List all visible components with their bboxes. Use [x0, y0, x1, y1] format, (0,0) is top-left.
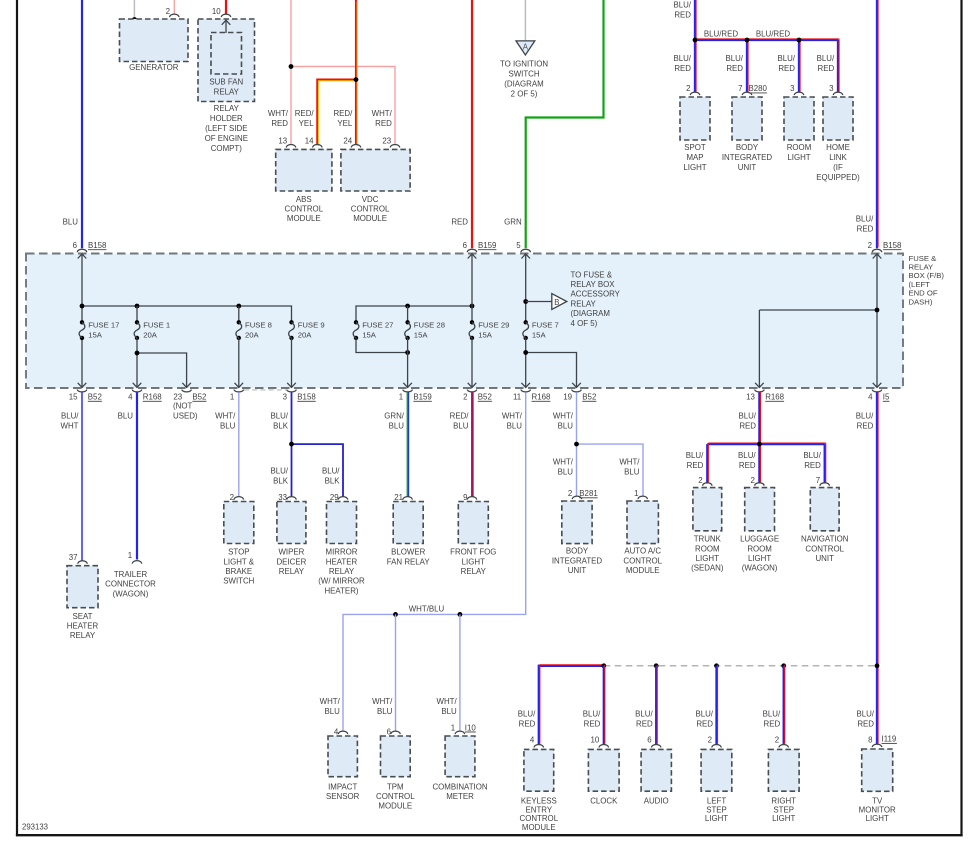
svg-text:RED: RED	[857, 720, 874, 729]
svg-text:B159: B159	[478, 241, 497, 250]
svg-text:MIRROR: MIRROR	[326, 548, 358, 557]
fuse FUSE 8 20A	[238, 306, 240, 322]
page border left	[16, 0, 18, 836]
svg-text:BLU/: BLU/	[738, 412, 756, 421]
svg-text:BLU/: BLU/	[777, 54, 795, 63]
svg-text:RED: RED	[857, 422, 874, 431]
svg-text:LIGHT: LIGHT	[866, 814, 889, 823]
fuse box entry pin 6 B159	[467, 249, 476, 252]
svg-text:7: 7	[738, 84, 742, 93]
wire BLU/RED keyless entry riser	[539, 666, 604, 745]
wire BLU/RED from exit 13 R168 to trunk/luggage/navigation	[758, 392, 760, 483]
svg-text:TO FUSE &: TO FUSE &	[571, 270, 613, 279]
svg-text:I10: I10	[465, 723, 477, 732]
svg-text:BLU/: BLU/	[673, 1, 691, 10]
svg-text:RED: RED	[674, 64, 691, 73]
svg-text:RED: RED	[739, 461, 756, 470]
svg-text:FAN RELAY: FAN RELAY	[387, 557, 431, 566]
component HOME LINK	[823, 97, 853, 140]
component CLOCK	[588, 749, 619, 791]
svg-text:NAVIGATION: NAVIGATION	[801, 535, 849, 544]
svg-text:RED: RED	[451, 217, 468, 226]
svg-text:GENERATOR: GENERATOR	[129, 63, 179, 72]
svg-text:RELAY: RELAY	[214, 88, 240, 97]
svg-text:(DIAGRAM: (DIAGRAM	[571, 309, 610, 318]
svg-text:RED: RED	[818, 64, 835, 73]
svg-text:293133: 293133	[22, 823, 48, 832]
wire BLU to trailer connector	[136, 392, 138, 559]
svg-text:(WAGON): (WAGON)	[113, 589, 149, 598]
fuse box exit pin 19 B52	[572, 383, 581, 388]
wire BLU/RED from exit 4 I5 down to tv monitor light	[876, 392, 878, 744]
svg-text:TV: TV	[872, 796, 883, 805]
svg-text:RED: RED	[687, 461, 704, 470]
component BODY INTEGRATED UNIT (roof)	[732, 97, 762, 140]
svg-text:MONITOR: MONITOR	[859, 805, 896, 814]
component STOP LIGHT & BRAKE SWITCH	[224, 502, 254, 544]
junction dot WHT/RED	[289, 64, 294, 69]
svg-text:15A: 15A	[478, 331, 493, 340]
svg-text:MAP: MAP	[686, 153, 703, 162]
svg-text:BLU/: BLU/	[673, 54, 691, 63]
fuse FUSE 29 15A	[470, 320, 474, 324]
off-page connector A to ignition switch	[516, 41, 535, 55]
svg-text:4 OF 5): 4 OF 5)	[571, 319, 598, 328]
svg-text:A: A	[523, 43, 529, 52]
svg-text:B158: B158	[883, 241, 902, 250]
svg-text:15A: 15A	[362, 331, 377, 340]
svg-text:CONTROL: CONTROL	[805, 544, 844, 553]
svg-text:INTEGRATED: INTEGRATED	[722, 153, 773, 162]
wire WHT/BLU drop to combination meter	[459, 614, 461, 731]
internal wire from entry 6 B158 down through fuse 17	[81, 255, 83, 323]
component NAVIGATION CONTROL UNIT	[810, 488, 839, 531]
svg-text:23: 23	[382, 136, 391, 145]
wire RED sub fan relay pin 10	[225, 0, 227, 15]
junction dot RED/YEL	[354, 77, 359, 82]
svg-text:LUGGAGE: LUGGAGE	[740, 535, 779, 544]
svg-text:CONTROL: CONTROL	[351, 205, 390, 214]
svg-text:BLU: BLU	[441, 707, 457, 716]
fuse FUSE 9 20A	[289, 320, 293, 324]
svg-text:BLU/: BLU/	[322, 467, 340, 476]
component SPOT MAP LIGHT	[680, 97, 710, 140]
svg-text:RELAY: RELAY	[329, 567, 355, 576]
svg-text:STEP: STEP	[706, 805, 727, 814]
svg-text:SENSOR: SENSOR	[326, 792, 360, 801]
svg-text:WHT/: WHT/	[619, 458, 640, 467]
svg-text:BLU/: BLU/	[270, 412, 288, 421]
svg-text:3: 3	[790, 84, 795, 93]
svg-text:LEFT: LEFT	[707, 796, 726, 805]
svg-text:LIGHT: LIGHT	[748, 554, 771, 563]
svg-text:BLU/: BLU/	[518, 710, 536, 719]
svg-text:ENTRY: ENTRY	[525, 805, 552, 814]
svg-text:BLU/: BLU/	[817, 54, 835, 63]
svg-text:BODY: BODY	[566, 547, 589, 556]
svg-text:I5: I5	[883, 393, 890, 402]
off-page connector B to accessory relay	[552, 294, 567, 310]
svg-text:WHT/BLU: WHT/BLU	[409, 605, 445, 614]
wire BLU/BLK to wiper deicer relay and mirror heater relay	[291, 392, 293, 497]
component SUB FAN RELAY	[211, 33, 242, 75]
svg-text:8: 8	[868, 736, 873, 745]
wire BLU/RED drop to body integrated unit	[746, 40, 748, 93]
svg-text:BLK: BLK	[273, 477, 289, 486]
svg-text:15A: 15A	[88, 331, 103, 340]
svg-text:37: 37	[69, 553, 78, 562]
junction dots on option bus	[601, 663, 606, 668]
svg-text:4: 4	[334, 728, 339, 737]
svg-text:UNIT: UNIT	[738, 163, 757, 172]
fuse box exit pin 15 B52	[78, 383, 87, 388]
component GENERATOR	[120, 19, 189, 62]
svg-text:BLU/: BLU/	[763, 710, 781, 719]
fuse box exit pin 2 B52	[468, 383, 477, 388]
svg-text:(SEDAN): (SEDAN)	[691, 564, 724, 573]
svg-text:WHT/: WHT/	[553, 458, 574, 467]
svg-text:B158: B158	[297, 393, 316, 402]
svg-text:2: 2	[708, 736, 712, 745]
svg-text:RELAY: RELAY	[70, 631, 96, 640]
svg-text:BLK: BLK	[325, 477, 341, 486]
svg-text:FUSE 8: FUSE 8	[245, 321, 272, 330]
svg-text:RED: RED	[764, 720, 781, 729]
svg-text:11: 11	[513, 393, 521, 402]
svg-text:BLU: BLU	[507, 422, 523, 431]
svg-text:GRN/: GRN/	[384, 412, 405, 421]
svg-text:I119: I119	[882, 735, 897, 744]
svg-text:2 OF 5): 2 OF 5)	[511, 89, 538, 98]
component RELAY HOLDER	[198, 19, 255, 102]
svg-text:7: 7	[816, 476, 820, 485]
component TPM CONTROL MODULE	[381, 736, 411, 777]
svg-text:LINK: LINK	[829, 153, 847, 162]
svg-text:3: 3	[829, 84, 834, 93]
svg-text:(DIAGRAM: (DIAGRAM	[504, 79, 543, 88]
svg-text:6: 6	[463, 241, 468, 250]
wire RED from top to fuse box entry 6 B159	[471, 0, 473, 248]
svg-text:WIPER: WIPER	[278, 548, 304, 557]
svg-text:MODULE: MODULE	[353, 214, 387, 223]
svg-text:2: 2	[686, 84, 690, 93]
dashed connector bracket between exits 1 and 3	[244, 389, 286, 391]
svg-text:BLU/: BLU/	[856, 412, 874, 421]
svg-text:UNIT: UNIT	[568, 566, 587, 575]
junction dots on right bus	[405, 304, 410, 309]
wire GRN/BLU to blower fan relay	[407, 392, 409, 497]
wire WHT/BLU to stop light and brake switch	[238, 392, 240, 497]
svg-text:RED/: RED/	[450, 412, 470, 421]
svg-text:(IF: (IF	[833, 163, 843, 172]
wire RED/BLU to front fog light relay	[471, 392, 473, 497]
svg-text:BLU: BLU	[558, 422, 574, 431]
fuse and relay box F/B	[26, 254, 903, 389]
svg-text:1: 1	[399, 393, 403, 402]
component BODY INTEGRATED UNIT	[562, 501, 592, 544]
wire BLU/RED drop to clock	[603, 666, 605, 745]
svg-text:RED: RED	[271, 119, 288, 128]
svg-text:RELAY BOX: RELAY BOX	[571, 280, 616, 289]
svg-text:SUB FAN: SUB FAN	[209, 78, 243, 87]
svg-text:CONTROL: CONTROL	[285, 205, 324, 214]
svg-text:RIGHT: RIGHT	[771, 796, 796, 805]
wire BLU/RED drop to right step light	[783, 666, 785, 745]
wire BLU/RED drop to room light	[798, 40, 800, 93]
svg-text:ROOM: ROOM	[747, 544, 772, 553]
svg-text:AUTO A/C: AUTO A/C	[624, 547, 661, 556]
component TRUNK ROOM LIGHT (SEDAN)	[693, 488, 722, 531]
svg-text:BLU/: BLU/	[61, 412, 79, 421]
svg-text:RED: RED	[636, 720, 653, 729]
svg-text:BLU/: BLU/	[686, 451, 704, 460]
internal wire fuse 7 to exits 11 R168 and 19 B52	[525, 338, 527, 387]
svg-text:4: 4	[868, 393, 873, 402]
svg-text:BLU/: BLU/	[738, 451, 756, 460]
svg-text:BLU/RED: BLU/RED	[704, 30, 739, 39]
svg-text:COMPT): COMPT)	[211, 144, 242, 153]
svg-text:FUSE &: FUSE &	[909, 254, 937, 263]
svg-text:(NOT: (NOT	[173, 402, 192, 411]
svg-text:COMBINATION: COMBINATION	[432, 782, 487, 791]
fuse box exit pin 1	[235, 383, 244, 388]
svg-text:B52: B52	[88, 393, 102, 402]
svg-text:FUSE 1: FUSE 1	[143, 321, 170, 330]
svg-text:BOX (F/B): BOX (F/B)	[909, 271, 945, 280]
svg-text:(W/ MIRROR: (W/ MIRROR	[318, 577, 365, 586]
wire BLU/RED bus to room/home drops	[695, 39, 838, 41]
component KEYLESS ENTRY CONTROL MODULE	[524, 749, 554, 791]
svg-text:BLU/: BLU/	[725, 54, 743, 63]
fuse FUSE 27 15A	[354, 320, 358, 324]
wire WHT/RED from top to ABS pin 13 and VDC pin 23	[290, 0, 292, 145]
svg-text:WHT/: WHT/	[502, 412, 523, 421]
svg-text:R168: R168	[765, 393, 784, 402]
svg-text:RED: RED	[739, 422, 756, 431]
junction dot BLU/BLK	[289, 442, 294, 447]
internal wire from entry 2 B158 down to exits 4 I5 and 13 R168	[876, 255, 878, 388]
svg-text:2: 2	[775, 736, 779, 745]
svg-text:USED): USED)	[173, 411, 198, 420]
fuse box exit pin 3 B158	[287, 383, 296, 388]
svg-text:BLU: BLU	[63, 217, 79, 226]
svg-text:10: 10	[212, 7, 221, 16]
component WIPER DEICER RELAY	[277, 502, 306, 544]
svg-text:RED: RED	[375, 119, 392, 128]
svg-text:WHT/: WHT/	[437, 697, 458, 706]
wire WHT/BLU drop to tpm control module	[395, 614, 397, 731]
svg-text:WHT/: WHT/	[372, 109, 393, 118]
component VDC CONTROL MODULE	[341, 149, 410, 191]
svg-text:2: 2	[166, 7, 170, 16]
svg-text:BRAKE: BRAKE	[225, 567, 252, 576]
fuse FUSE 1 20A	[136, 306, 138, 322]
svg-text:RELAY: RELAY	[909, 263, 934, 272]
svg-text:FUSE 27: FUSE 27	[362, 321, 393, 330]
svg-text:RED: RED	[726, 64, 743, 73]
svg-text:FUSE 9: FUSE 9	[298, 321, 325, 330]
junction dot WHT/BLU branch	[574, 442, 579, 447]
wire WHT/BLU from exit 19 B52 to body integrated unit and auto a/c	[576, 392, 578, 496]
svg-text:LIGHT: LIGHT	[787, 153, 810, 162]
svg-text:1: 1	[451, 723, 455, 732]
svg-text:LIGHT: LIGHT	[683, 163, 706, 172]
svg-text:B158: B158	[88, 241, 107, 250]
component COMBINATION METER	[445, 736, 475, 777]
fuse FUSE 7 15A	[524, 320, 528, 324]
svg-text:WHT/: WHT/	[372, 697, 393, 706]
svg-text:MODULE: MODULE	[626, 566, 660, 575]
wire BLU/WHT to seat heater relay	[81, 392, 83, 561]
svg-text:RED: RED	[584, 720, 601, 729]
svg-text:13: 13	[746, 393, 755, 402]
component RIGHT STEP LIGHT	[768, 749, 799, 791]
internal bus right	[356, 306, 472, 322]
wire from pin 10 into sub fan relay with up arrow	[225, 20, 227, 33]
svg-text:RED/: RED/	[295, 109, 315, 118]
fuse box exit pin 1 B159	[403, 383, 412, 388]
svg-text:BLU: BLU	[558, 468, 574, 477]
wire GRY to ignition switch symbol	[524, 0, 526, 41]
page border bottom	[16, 834, 963, 836]
svg-text:B52: B52	[582, 393, 596, 402]
svg-text:KEYLESS: KEYLESS	[521, 796, 557, 805]
svg-text:20A: 20A	[245, 331, 260, 340]
svg-text:CONTROL: CONTROL	[520, 814, 559, 823]
internal wire from entry 6 B159 down through fuse 29	[471, 255, 473, 323]
svg-text:BLU/RED: BLU/RED	[756, 30, 791, 39]
svg-text:SWITCH: SWITCH	[508, 69, 539, 78]
svg-text:BLU: BLU	[624, 468, 640, 477]
svg-text:HEATER: HEATER	[326, 557, 358, 566]
svg-text:TPM: TPM	[387, 782, 404, 791]
svg-text:WHT/: WHT/	[268, 109, 289, 118]
svg-text:15A: 15A	[532, 331, 547, 340]
svg-text:STEP: STEP	[773, 805, 794, 814]
wire BLU/RED from top to spot map light bus	[694, 0, 696, 93]
svg-text:IMPACT: IMPACT	[328, 782, 357, 791]
svg-text:STOP: STOP	[228, 548, 249, 557]
svg-text:(LEFT SIDE: (LEFT SIDE	[205, 124, 247, 133]
svg-text:LIGHT: LIGHT	[705, 814, 728, 823]
svg-text:BLU/: BLU/	[856, 710, 874, 719]
svg-text:FUSE 17: FUSE 17	[88, 321, 119, 330]
svg-text:2: 2	[568, 489, 572, 498]
component AUTO A/C CONTROL MODULE	[627, 501, 658, 544]
svg-text:4: 4	[530, 736, 535, 745]
svg-text:TRAILER: TRAILER	[114, 570, 148, 579]
svg-text:CLOCK: CLOCK	[590, 796, 618, 805]
svg-text:BLOWER: BLOWER	[391, 548, 425, 557]
svg-text:HEATER): HEATER)	[324, 586, 358, 595]
svg-text:YEL: YEL	[337, 119, 353, 128]
component MIRROR HEATER RELAY	[327, 502, 357, 544]
svg-text:LIGHT: LIGHT	[772, 814, 795, 823]
component LEFT STEP LIGHT	[701, 749, 732, 791]
wire BLU from top to fuse box entry 6 B158	[81, 0, 83, 248]
svg-text:2: 2	[868, 241, 872, 250]
svg-text:WHT/: WHT/	[320, 697, 341, 706]
svg-text:B280: B280	[749, 84, 768, 93]
svg-text:LIGHT &: LIGHT &	[224, 557, 255, 566]
svg-text:3: 3	[283, 393, 288, 402]
fuse box exit pin 13 R168	[755, 383, 764, 388]
svg-text:13: 13	[278, 136, 287, 145]
svg-text:BLU/: BLU/	[803, 451, 821, 460]
svg-text:5: 5	[516, 241, 521, 250]
svg-text:RED: RED	[778, 64, 795, 73]
svg-text:20A: 20A	[298, 331, 313, 340]
junction dots on left bus	[80, 304, 85, 309]
svg-text:BLU/: BLU/	[695, 710, 713, 719]
svg-text:RED: RED	[857, 225, 874, 234]
svg-text:BLU/: BLU/	[270, 467, 288, 476]
svg-text:BLU: BLU	[389, 422, 405, 431]
internal wire fuse 1 to exits 4 R168 and 23 B52	[136, 338, 138, 387]
svg-text:RED: RED	[696, 720, 713, 729]
svg-text:BLU: BLU	[453, 422, 469, 431]
svg-text:EQUIPPED): EQUIPPED)	[816, 173, 860, 182]
svg-text:B52: B52	[478, 393, 492, 402]
junction dots on WHT/BLU bus	[393, 612, 398, 617]
svg-text:1: 1	[634, 489, 638, 498]
component AUDIO	[641, 749, 671, 791]
internal wire fuse 27 joins fuse 28	[356, 338, 408, 353]
svg-text:B52: B52	[192, 393, 206, 402]
svg-text:RELAY: RELAY	[279, 567, 305, 576]
svg-text:15: 15	[69, 393, 78, 402]
fuse box entry pin 2 B158	[872, 249, 881, 252]
junction dots on BLU/RED bus	[693, 38, 698, 43]
svg-text:MODULE: MODULE	[378, 802, 412, 811]
svg-text:RELAY: RELAY	[461, 567, 487, 576]
svg-text:10: 10	[591, 736, 600, 745]
component ROOM LIGHT	[784, 97, 814, 140]
svg-text:MODULE: MODULE	[287, 214, 321, 223]
wire WHT/RED generator pin 2	[173, 0, 175, 15]
svg-text:BLU/: BLU/	[635, 710, 653, 719]
wire to accessory relay symbol	[526, 301, 552, 303]
svg-text:CONNECTOR: CONNECTOR	[105, 580, 156, 589]
svg-text:ACCESSORY: ACCESSORY	[571, 290, 621, 299]
junction dot BLU/RED branch	[757, 442, 762, 447]
svg-text:SPOT: SPOT	[684, 143, 706, 152]
component ABS CONTROL MODULE	[276, 149, 332, 191]
svg-text:BLU: BLU	[324, 707, 340, 716]
component TV MONITOR LIGHT	[862, 749, 893, 791]
svg-text:6: 6	[73, 241, 78, 250]
wire GRN from top to fuse box entry 5	[526, 0, 604, 248]
fuse box exit pin 4 R168	[133, 383, 142, 388]
svg-text:R168: R168	[143, 393, 162, 402]
svg-text:BLU: BLU	[220, 422, 236, 431]
svg-text:TRUNK: TRUNK	[694, 535, 722, 544]
svg-text:BLU: BLU	[118, 412, 134, 421]
svg-text:RED: RED	[674, 11, 691, 20]
svg-text:OF ENGINE: OF ENGINE	[205, 134, 248, 143]
svg-text:TO IGNITION: TO IGNITION	[500, 59, 548, 68]
svg-text:BLK: BLK	[273, 422, 289, 431]
svg-text:20A: 20A	[143, 331, 158, 340]
svg-text:LIGHT: LIGHT	[462, 557, 485, 566]
svg-text:SEAT: SEAT	[72, 612, 92, 621]
svg-text:DEICER: DEICER	[276, 557, 306, 566]
svg-text:(WAGON): (WAGON)	[742, 564, 778, 573]
component IMPACT SENSOR	[328, 736, 357, 777]
svg-text:2: 2	[698, 476, 702, 485]
svg-text:2: 2	[463, 393, 467, 402]
junction dot on generator top edge	[132, 17, 137, 22]
